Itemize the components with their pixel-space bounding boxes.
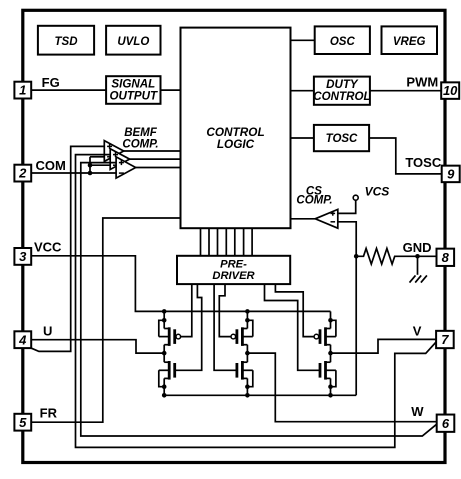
junction Q1 drain node [162,318,167,323]
svg-text:TOSC: TOSC [405,155,441,170]
wire control bus line 2 [208,228,210,256]
svg-text:FR: FR [40,405,58,420]
wire V feedback to comparator B plus [76,155,437,448]
wire COM pin2 to comparator C minus [31,172,116,174]
svg-text:7: 7 [441,332,449,347]
wire Q1 drain to supply rail [163,311,165,328]
ground symbol [410,275,427,282]
wire gate drive Q1 (col1 PMOS) [181,284,192,337]
block PRE-DRIVER [177,256,290,284]
svg-text:4: 4 [18,332,27,347]
junction ground rail col3 [328,393,333,398]
pin 10 [441,82,459,99]
junction phase node col3 [328,351,333,356]
wire W feedback to comparator C plus [81,163,437,436]
wire Q1 body tie [159,320,164,336]
wire Q2 source down [163,378,165,386]
wire COM branch vertical [89,157,91,173]
wire Q6 drain to phase node [330,353,332,362]
junction COM node 2 [88,171,93,176]
net label PWM [406,74,438,89]
op-amp BEMF comparator B (middle) [110,149,129,170]
wire phase col2 to pin6 W [247,353,436,422]
wire TOSC block to pin9 [369,138,442,174]
junction GND node [415,254,420,259]
svg-text:VREG: VREG [393,36,426,48]
svg-text:VCS: VCS [365,185,390,199]
svg-text:PWM: PWM [406,74,438,89]
wire Q1 source to phase node [163,345,165,353]
wire Q4 source to ground rail [246,387,248,396]
wire comparator C output to CONTROL LOGIC [136,167,181,169]
op-amp BEMF comparator A (back) [104,141,123,162]
wire Q5 body tie [331,320,336,336]
wire CS comparator output to CONTROL LOGIC [291,218,316,220]
wire Q2 drain to phase node [163,353,165,362]
wire VCS to CS comparator plus [338,200,356,213]
svg-text:9: 9 [447,167,455,182]
svg-text:U: U [43,324,52,339]
svg-text:CONTROL: CONTROL [313,90,370,103]
net label GND [403,240,432,255]
svg-text:TOSC: TOSC [326,133,358,145]
junction supply rail col2 [245,309,250,314]
net label COM [36,158,66,173]
svg-text:8: 8 [442,250,450,265]
VCS terminal [353,195,358,200]
svg-text:VCC: VCC [34,239,62,254]
wire VCC pin3 to bridge supply rail [31,256,330,312]
svg-text:6: 6 [442,416,450,431]
wire control bus line 4 [225,228,227,256]
wire Q6 source down [330,378,332,386]
pin 6 [437,415,455,432]
junction phase node col1 [162,351,167,356]
wire COM to comparator A minus [90,156,104,158]
block TSD [38,26,94,55]
svg-text:BEMF: BEMF [124,127,158,139]
wire gate drive Q2 (col1 NMOS) [176,284,202,370]
wire Q5 drain to supply rail [330,311,332,328]
wire FG pin1 to SIGNAL OUTPUT [31,89,106,91]
junction Q4 source node [245,384,250,389]
wire CS comparator minus to sense node [338,222,356,256]
pin 1 [14,82,31,99]
svg-text:OSC: OSC [330,36,356,48]
wire gate drive Q4 (col2 NMOS) [214,284,236,370]
net label FR [40,405,58,420]
op-amp BEMF comparator C (front) [116,157,136,178]
wire Q4 body tie [247,370,252,386]
junction phase node col2 [245,351,250,356]
wire Q6 body tie [331,370,336,386]
wire DUTY CONTROL to pin10 PWM [370,90,441,92]
transistor Q3 (high-side PMOS col2) [231,327,253,346]
pin 5 [14,414,31,431]
net label FG [42,75,60,90]
block CONTROL LOGIC [181,28,291,229]
junction Q5 drain node [328,318,333,323]
net label VCS [365,185,390,199]
junction Q3 drain node [245,318,250,323]
junction sense node [354,254,359,259]
svg-text:PRE-: PRE- [220,258,247,270]
pin 4 [14,331,31,348]
svg-text:COMP.: COMP. [122,139,158,151]
transistor Q5 (high-side PMOS col3) [314,327,336,346]
wire gate drive Q6 (col3 NMOS) [265,284,320,370]
wire control bus line 3 [217,228,219,256]
wire Q6 source to ground rail [330,387,332,396]
net label TOSC [405,155,441,170]
net label U [43,324,52,339]
svg-text:UVLO: UVLO [117,36,149,48]
block DUTY CONTROL [313,77,370,105]
svg-text:1: 1 [19,83,26,98]
wire phase col3 to pin7 V [331,339,437,353]
wire Q4 source down [246,378,248,386]
wire sense node to ground rail [355,256,357,395]
wire gate drive Q3 (col2 PMOS) [219,284,231,337]
block OSC [315,26,370,54]
wire COM to comparator B minus [90,164,110,166]
wire comparator B output to CONTROL LOGIC [130,158,181,160]
svg-text:FG: FG [42,75,60,90]
svg-text:3: 3 [19,249,27,264]
svg-text:2: 2 [18,166,27,181]
transistor Q6 (low-side NMOS col3) [320,361,336,380]
wire control bus line 7 [251,228,253,256]
svg-text:GND: GND [403,240,432,255]
resistor R1 (current sense) [356,249,417,265]
wire Q5 source to phase node [330,345,332,353]
svg-text:V: V [413,324,422,339]
net label V [413,324,422,339]
wire gate drive Q5 (col3 PMOS) [275,284,314,337]
junction Q6 source node [328,384,333,389]
wire CONTROL LOGIC to DUTY CONTROL [291,90,314,92]
svg-text:5: 5 [19,415,27,430]
net label W [411,404,424,419]
svg-text:W: W [411,404,424,419]
junction ground rail col1 [162,393,167,398]
wire Q3 body tie [247,320,252,336]
junction COM node 1 [88,163,93,168]
CS comparator label [296,185,332,206]
wire CONTROL LOGIC to OSC [291,39,315,41]
block UVLO [106,26,160,55]
wire comparator A output to CONTROL LOGIC [124,150,181,152]
BEMF comparator label [122,127,158,151]
wire Q2 source to ground rail [163,387,165,396]
pin 3 [14,248,31,265]
svg-text:DRIVER: DRIVER [212,270,254,282]
wire control bus line 6 [243,228,245,256]
net label VCC [34,239,62,254]
wire Q4 drain to phase node [246,353,248,362]
ground rail (sense rail) [164,394,356,396]
pin 9 [442,166,460,183]
wire Q3 drain to supply rail [246,311,248,328]
pin 8 [437,249,455,266]
svg-text:COMP.: COMP. [296,195,332,207]
block TOSC [314,125,369,151]
transistor Q2 (low-side NMOS col1) [159,361,175,380]
junction ground rail col2 [245,393,250,398]
svg-text:10: 10 [443,83,458,98]
block SIGNAL OUTPUT [106,76,160,104]
wire control bus line 1 [200,228,202,256]
wire control bus line 5 [234,228,236,256]
transistor Q1 (high-side PMOS col1) [159,327,181,346]
svg-text:LOGIC: LOGIC [217,137,255,151]
block VREG [382,26,438,54]
svg-text:DUTY: DUTY [326,78,359,91]
wire Q3 source to phase node [246,345,248,353]
wire SIGNAL OUTPUT to CONTROL LOGIC [161,89,181,91]
svg-text:OUTPUT: OUTPUT [109,89,158,102]
pin 7 [436,331,454,348]
junction supply rail col1 [162,309,167,314]
svg-text:COM: COM [36,158,66,173]
wire pin4 U to phase node col1 [31,340,164,353]
transistor Q4 (low-side NMOS col2) [237,361,253,380]
svg-text:TSD: TSD [55,36,78,48]
wire Q2 body tie [159,370,164,386]
wire U feedback to comparator A plus [30,146,104,351]
wire sense resistor to pin8 GND [418,255,437,257]
wire FR pin5 to CONTROL LOGIC [31,218,180,422]
wire CONTROL LOGIC to TOSC block [291,137,314,139]
junction Q2 source node [162,384,167,389]
wire GND node down to ground symbol [417,256,419,275]
op-amp CS comparator [315,209,338,228]
pin 2 [14,165,31,182]
